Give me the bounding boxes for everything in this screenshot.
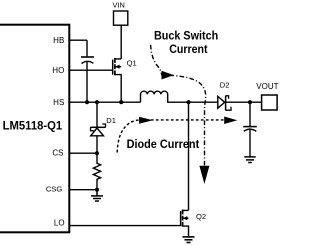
svg-text:CSG: CSG xyxy=(46,185,63,194)
svg-text:CS: CS xyxy=(52,148,63,157)
svg-text:LO: LO xyxy=(54,219,65,228)
svg-text:Current: Current xyxy=(169,42,207,56)
svg-text:LM5118-Q1: LM5118-Q1 xyxy=(3,119,63,133)
svg-text:Q2: Q2 xyxy=(196,212,206,221)
svg-text:Diode Current: Diode Current xyxy=(127,137,200,151)
svg-text:HO: HO xyxy=(52,66,64,75)
svg-text:HB: HB xyxy=(53,36,64,45)
svg-text:Q1: Q1 xyxy=(127,59,137,68)
svg-text:HS: HS xyxy=(53,98,64,107)
svg-text:Buck Switch: Buck Switch xyxy=(154,29,218,43)
svg-text:VOUT: VOUT xyxy=(256,82,278,91)
svg-text:VIN: VIN xyxy=(113,0,125,9)
svg-text:D2: D2 xyxy=(220,81,230,90)
svg-text:D1: D1 xyxy=(106,116,116,125)
